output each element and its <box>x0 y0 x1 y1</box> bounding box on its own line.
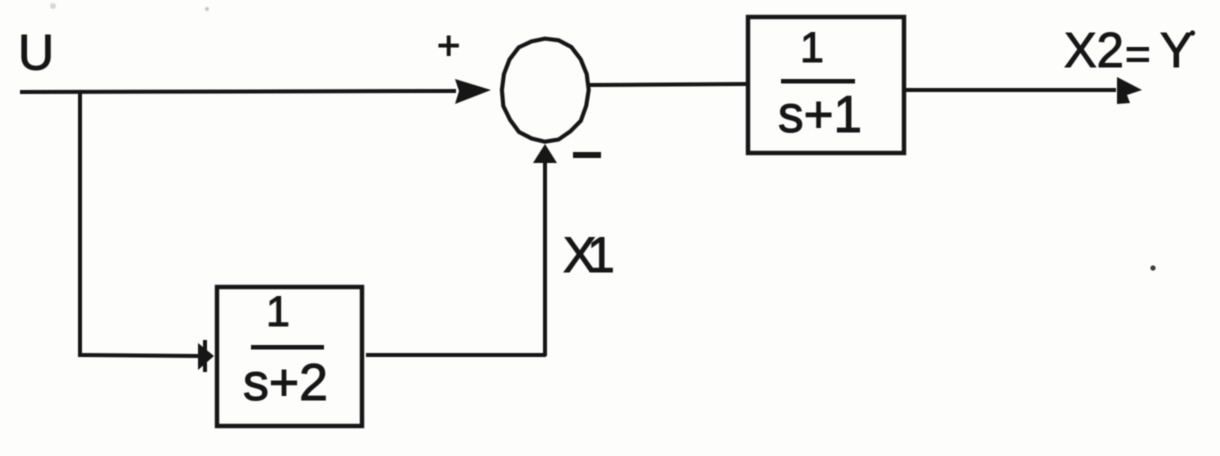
wire summing junction to block 1/(s+1) <box>589 84 746 85</box>
label X1 (feedback signal) <box>563 227 615 283</box>
scan speck top middle <box>205 7 209 11</box>
svg-text:X2: X2 <box>1064 24 1124 78</box>
scan speck top left edge <box>50 3 56 9</box>
value s+1 (denominator of 1/(s+1)) <box>778 86 862 144</box>
wire branch vertical from U line down <box>78 92 82 355</box>
value s+2 (denominator of 1/(s+2)) <box>243 354 328 412</box>
wire block 1/(s+2) to feedback corner <box>366 353 546 357</box>
wire bottom horizontal into block 1/(s+2) <box>78 355 198 356</box>
wire feedback vertical up to summing junction <box>543 162 547 356</box>
label + (plus sign at summing input) <box>437 24 460 68</box>
arrowhead into summing junction (bottom) <box>533 144 557 163</box>
value 1 (numerator of 1/(s+1)) <box>800 24 824 72</box>
arrowhead into summing junction (left) <box>455 79 491 104</box>
fraction bar of 1/(s+1) <box>781 79 855 84</box>
wire main input horizontal <box>20 91 456 92</box>
wire block 1/(s+1) to output <box>906 88 1116 92</box>
svg-text:1: 1 <box>800 24 824 72</box>
summing junction circle <box>502 39 589 142</box>
label U (input signal) <box>18 25 54 81</box>
block G2 box 1/(s+2) <box>217 287 362 426</box>
value 1 (numerator of 1/(s+2)) <box>266 288 290 336</box>
arrowhead output (right) <box>1117 77 1142 104</box>
arrowhead into block 1/(s+2) <box>198 340 214 372</box>
svg-text:+: + <box>437 24 460 68</box>
scan speck near output label <box>1150 265 1155 270</box>
svg-text:s+2: s+2 <box>243 354 328 412</box>
svg-text:1: 1 <box>266 288 290 336</box>
fraction bar of 1/(s+2) <box>251 345 324 350</box>
svg-text:Y: Y <box>1160 24 1193 78</box>
block G1 box 1/(s+1) <box>748 17 904 153</box>
label X2= Y (output signal) <box>1064 24 1195 79</box>
svg-text:s+1: s+1 <box>778 86 862 144</box>
label - (minus sign at feedback input) <box>573 152 601 158</box>
svg-text:=: = <box>1125 30 1151 79</box>
svg-text:U: U <box>18 25 54 81</box>
svg-text:1: 1 <box>587 227 615 283</box>
